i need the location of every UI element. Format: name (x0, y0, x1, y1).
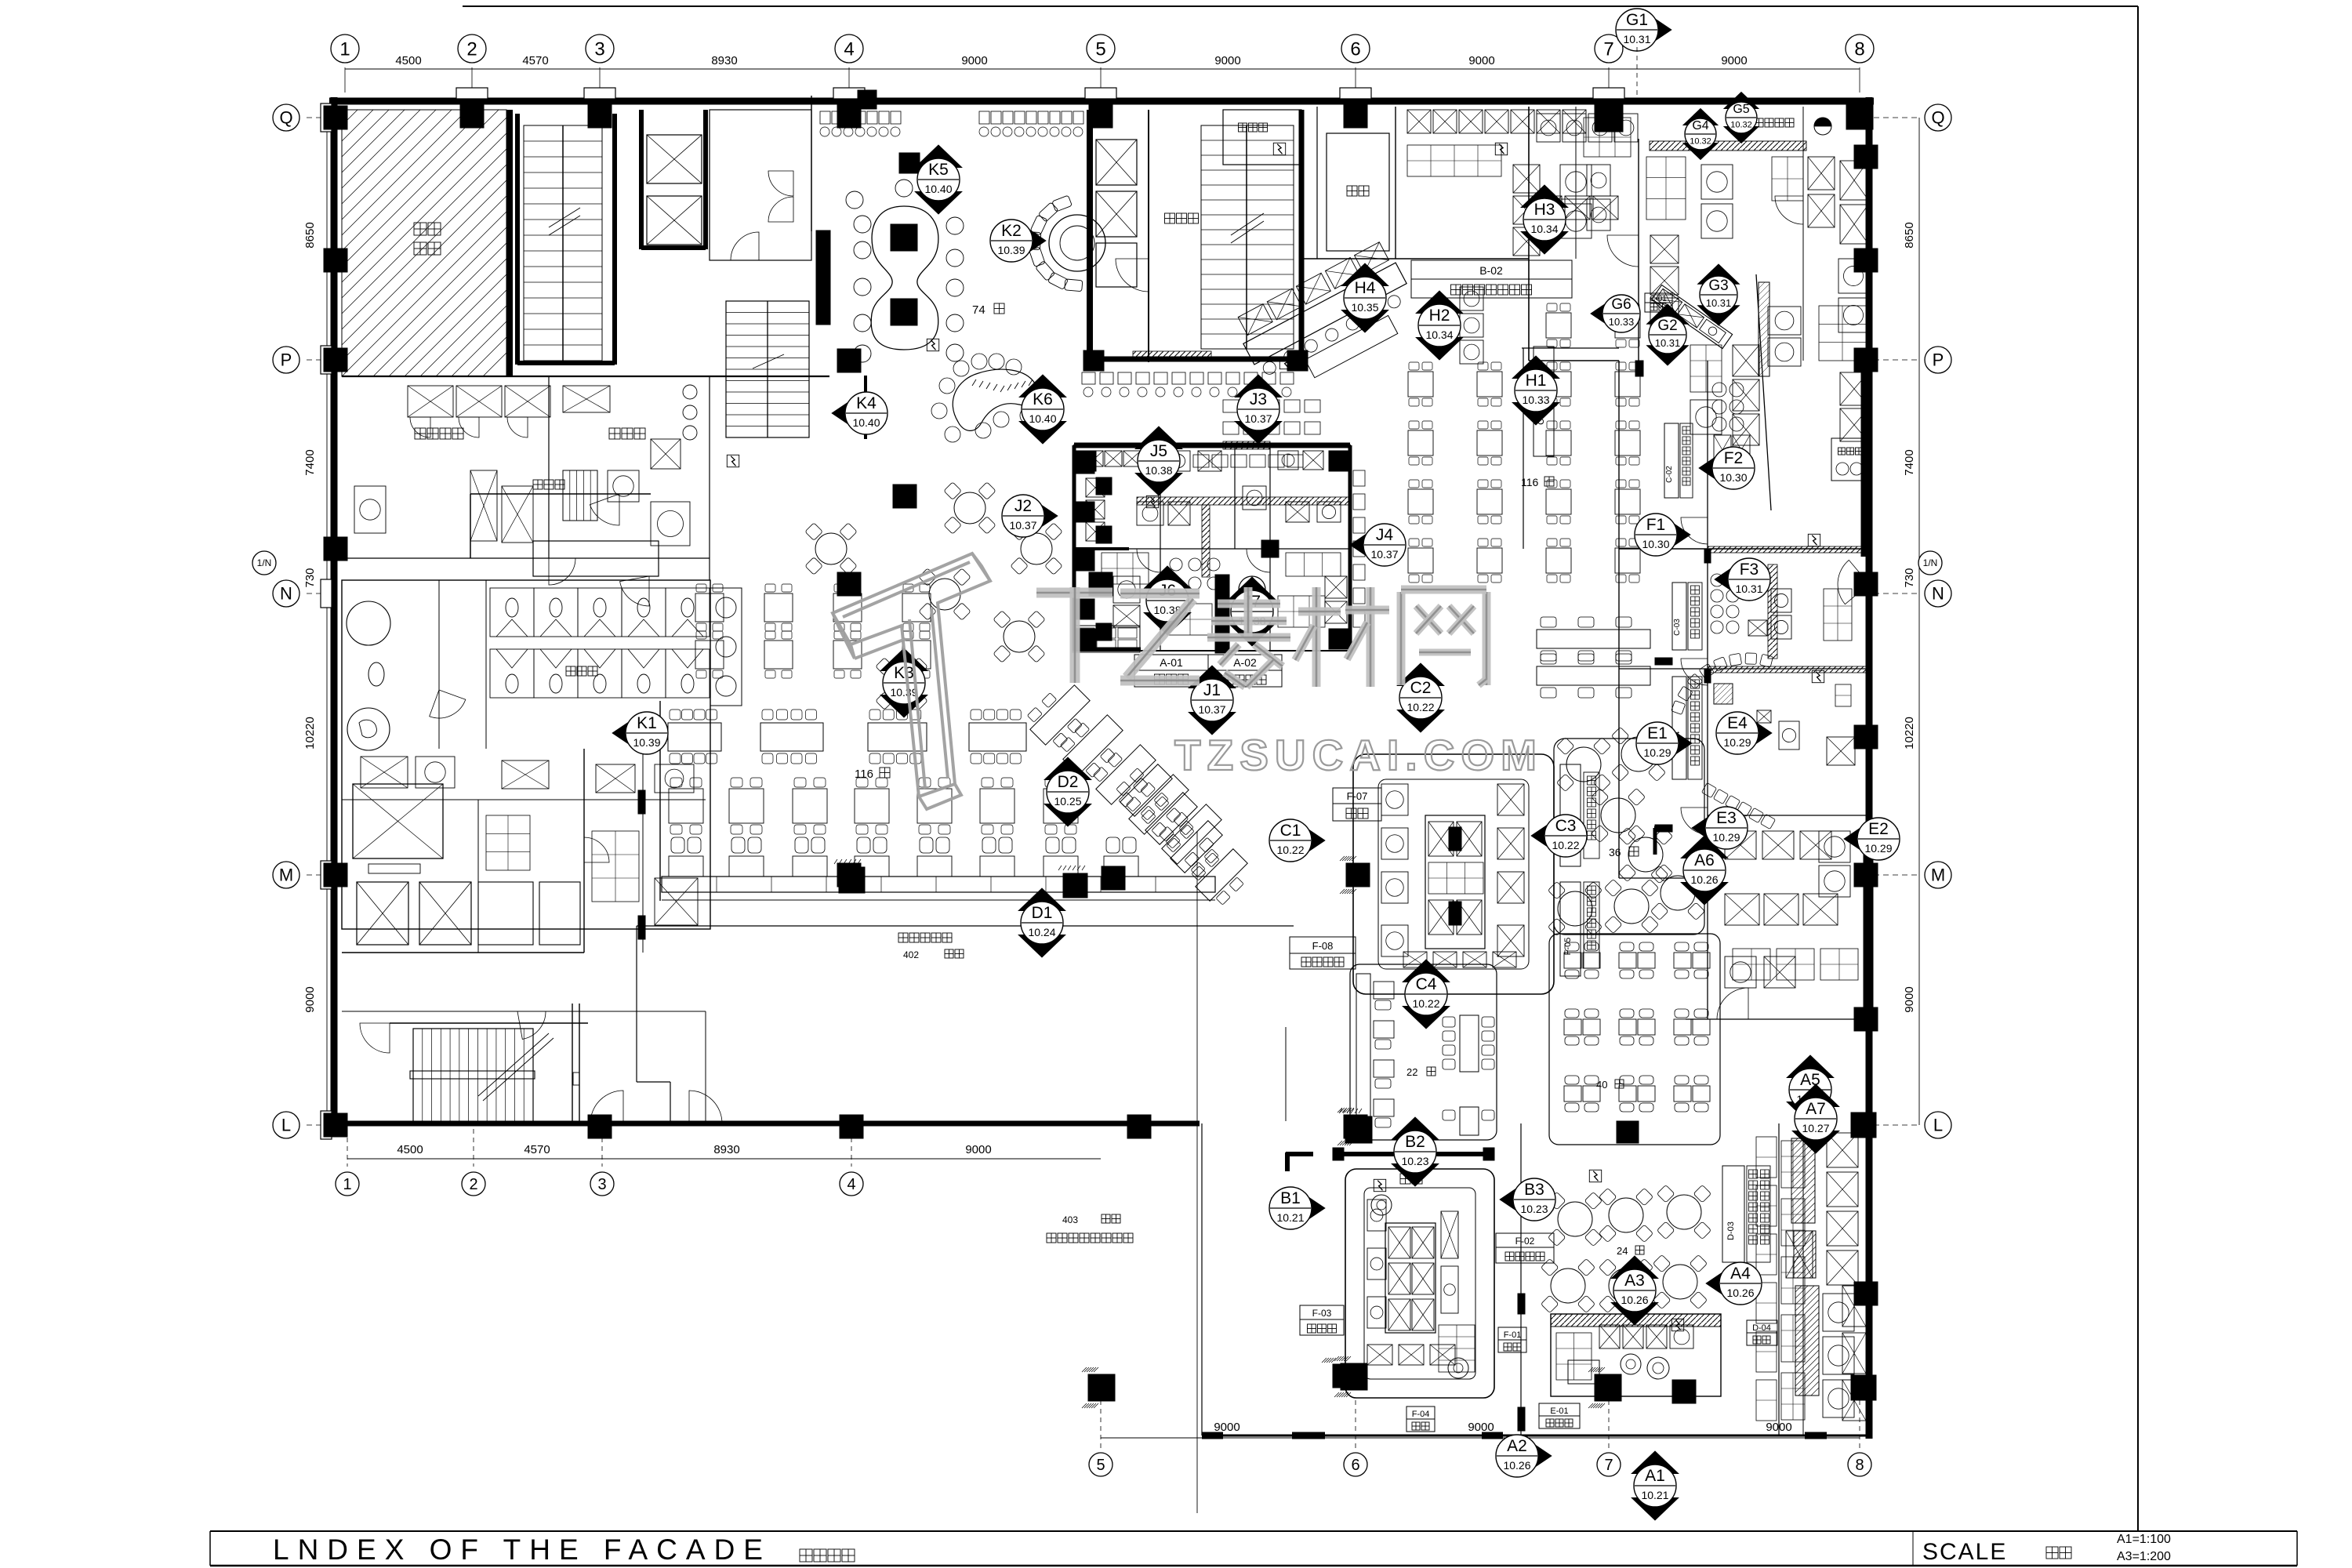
kitchen 公用厨房 (415, 428, 426, 439)
svg-text:10.22: 10.22 (1276, 844, 1304, 856)
svg-text:9000: 9000 (1468, 54, 1494, 67)
F-03 labels (1300, 1305, 1344, 1319)
column (1854, 1282, 1878, 1305)
column (1854, 725, 1878, 749)
S banana counter (953, 369, 1038, 430)
marker H4 (1341, 263, 1388, 286)
grid bubble 1 (331, 34, 359, 63)
hatched door sill TM (1133, 351, 1211, 361)
marker G1 (1643, 11, 1671, 49)
marker K1 (612, 714, 641, 752)
sheet frame top border (463, 5, 2138, 7)
svg-text:3: 3 (597, 1176, 606, 1193)
svg-text:L: L (281, 1116, 291, 1135)
svg-text:N: N (1932, 584, 1944, 604)
svg-text:5: 5 (1095, 38, 1105, 60)
black wall segment lobby (816, 230, 830, 325)
outer wall top (329, 98, 1874, 105)
marker J4 (1350, 526, 1378, 564)
grid bubble 8 (1846, 34, 1874, 63)
column (324, 537, 347, 561)
marker B1 (1297, 1189, 1325, 1227)
marker G3 (1697, 264, 1739, 284)
svg-text:1/N: 1/N (1923, 557, 1938, 568)
svg-text:E3: E3 (1716, 809, 1737, 827)
marker A4 (1706, 1265, 1734, 1302)
svg-text:9000: 9000 (961, 54, 987, 67)
right lower equipment strip (1778, 1123, 1780, 1436)
40-person room (1549, 934, 1720, 1145)
svg-text:10.33: 10.33 (1522, 394, 1549, 406)
marker G5 (1724, 92, 1759, 108)
grid bubble 2 (462, 1172, 485, 1196)
svg-text:10.29: 10.29 (1723, 736, 1751, 749)
svg-text:10.40: 10.40 (1029, 412, 1056, 425)
svg-text:C-03: C-03 (1673, 619, 1682, 636)
grid bubble Q (273, 104, 299, 131)
J kitchen left checker wall (1076, 453, 1094, 474)
svg-text:P: P (281, 350, 292, 370)
svg-text:N: N (280, 584, 292, 604)
A-01 A-02 labels (1134, 655, 1208, 670)
svg-text:Q: Q (1931, 108, 1944, 128)
grid bubble 7 (1595, 34, 1623, 63)
TM stair (1201, 125, 1294, 349)
column (893, 485, 916, 508)
svg-text:K2: K2 (1001, 222, 1022, 240)
column (1089, 572, 1112, 596)
svg-text:E1: E1 (1647, 724, 1668, 742)
marker F2 (1699, 449, 1727, 487)
outer wall left (331, 97, 338, 1127)
svg-text:10.37: 10.37 (1370, 548, 1398, 561)
svg-text:10.22: 10.22 (1412, 997, 1439, 1010)
hatched AC machine room (342, 110, 506, 376)
svg-text:10.29: 10.29 (1712, 831, 1740, 844)
column (840, 1115, 863, 1138)
svg-text:Q: Q (279, 108, 292, 128)
svg-text:10.23: 10.23 (1520, 1203, 1548, 1215)
lower wing bottom wall (1202, 1435, 1872, 1437)
svg-text:G2: G2 (1657, 318, 1677, 334)
svg-text:K6: K6 (1033, 390, 1053, 408)
flue room (1327, 133, 1389, 251)
watermark char su (1218, 600, 1280, 608)
svg-text:3: 3 (594, 38, 604, 60)
svg-text:10.26: 10.26 (1726, 1287, 1754, 1299)
wall below lobby K4 (864, 376, 867, 439)
power room TM top (1223, 110, 1301, 165)
J kitchen walls (1074, 445, 1350, 651)
column (1851, 1112, 1876, 1138)
svg-text:F2: F2 (1724, 449, 1744, 467)
svg-text:J1: J1 (1203, 681, 1221, 699)
svg-text:1: 1 (343, 1176, 351, 1193)
grid bubble 7 (1597, 1453, 1621, 1476)
dining NE walls (1523, 348, 1524, 549)
lightning symbols (731, 456, 735, 466)
column (324, 348, 347, 372)
svg-text:403: 403 (1062, 1214, 1078, 1225)
svg-text:9000: 9000 (1214, 54, 1240, 67)
svg-text:G1: G1 (1626, 11, 1648, 29)
svg-text:2: 2 (466, 38, 477, 60)
svg-text:D1: D1 (1032, 904, 1053, 922)
svg-text:A7: A7 (1806, 1100, 1826, 1118)
svg-text:10.26: 10.26 (1621, 1294, 1648, 1306)
grid bubble N (1925, 580, 1951, 607)
marker H2 (1416, 291, 1463, 314)
column hatched (1346, 863, 1370, 887)
E room below (1725, 831, 1756, 859)
top dimension line (345, 68, 1860, 70)
column (1261, 540, 1279, 557)
svg-text:J2: J2 (1014, 497, 1032, 515)
marker E2 (1844, 820, 1872, 858)
K1 tables (695, 593, 724, 622)
C-01 label (1645, 293, 1672, 303)
column (1854, 572, 1878, 596)
svg-text:4500: 4500 (395, 54, 421, 67)
leader G1 (1636, 47, 1638, 101)
svg-text:10.38: 10.38 (1145, 464, 1172, 477)
svg-text:H3: H3 (1534, 201, 1555, 219)
svg-text:7400: 7400 (1903, 449, 1916, 475)
toilets outer (342, 580, 710, 929)
watermark char T (1036, 588, 1112, 598)
column (1851, 1375, 1876, 1400)
strip doors (1681, 517, 1708, 544)
svg-text:F1: F1 (1646, 516, 1666, 534)
H2 room equipment (1460, 287, 1483, 310)
svg-text:10.37: 10.37 (1009, 519, 1036, 532)
column (324, 863, 347, 887)
marker A3 (1611, 1256, 1658, 1279)
left rooms partitions (584, 799, 706, 800)
svg-text:10.35: 10.35 (1351, 301, 1378, 314)
watermark char cai (1312, 587, 1321, 687)
svg-text:7400: 7400 (303, 449, 317, 475)
column (1854, 863, 1878, 887)
column (837, 572, 861, 596)
marker C4 (1403, 960, 1450, 982)
marker K6 (1019, 375, 1066, 397)
chairs right of J kitchen (1353, 470, 1365, 486)
grid bubble M (1925, 862, 1951, 888)
svg-text:10220: 10220 (1903, 717, 1916, 750)
svg-text:LNDEX OF THE FACADE: LNDEX OF THE FACADE (273, 1534, 771, 1566)
marker D1 (1018, 888, 1065, 911)
marker K3 (880, 648, 927, 671)
marker C1 (1297, 822, 1325, 859)
grid bubble M (273, 862, 299, 888)
svg-text:10.32: 10.32 (1690, 137, 1711, 147)
svg-text:F-01: F-01 (1504, 1330, 1522, 1340)
outer wall bottom grid L (331, 1121, 1200, 1127)
J5 seat row (1193, 455, 1209, 467)
grid bubble 5 (1087, 34, 1115, 63)
column hatched (1088, 1374, 1115, 1401)
column (1672, 1380, 1696, 1403)
svg-text:1/N: 1/N (257, 557, 272, 568)
marker J3 (1235, 375, 1282, 397)
grid bubble N (273, 580, 299, 607)
svg-text:C3: C3 (1555, 817, 1577, 835)
36 area corner wall (1654, 826, 1672, 830)
TL stair walls (515, 114, 520, 365)
stairwell TL (524, 125, 602, 361)
round bar (1049, 215, 1105, 271)
svg-text:E4: E4 (1727, 714, 1748, 732)
grid bubble Q (1925, 104, 1951, 131)
title block lines (210, 1530, 2297, 1532)
grid bubble 4 (840, 1172, 863, 1196)
sheet frame right border (2137, 6, 2139, 1531)
svg-text:G6: G6 (1611, 296, 1631, 313)
svg-text:6: 6 (1350, 38, 1360, 60)
svg-text:10.39: 10.39 (890, 686, 917, 699)
G2 room equip (1690, 345, 1722, 392)
right dimension line (1918, 118, 1920, 1125)
svg-text:4: 4 (844, 38, 854, 60)
D1 boundary (637, 925, 1294, 927)
marker G2 (1646, 304, 1688, 324)
column (324, 249, 347, 272)
column (1595, 103, 1623, 132)
svg-text:4500: 4500 (397, 1143, 423, 1156)
D-04 label (1747, 1320, 1777, 1333)
J kitchen hatched walls (1137, 497, 1350, 505)
marker G4 (1683, 108, 1718, 125)
marker G6 (1591, 296, 1616, 330)
marker B2 (1392, 1117, 1439, 1140)
svg-text:C-02: C-02 (1665, 466, 1674, 483)
outer wall right (1866, 97, 1873, 1439)
diagonal tables row1 (1022, 677, 1098, 753)
marker J5 (1135, 426, 1182, 449)
bottom-left dimension line (347, 1158, 1101, 1160)
column (588, 104, 612, 128)
svg-text:A3: A3 (1624, 1272, 1645, 1290)
grid bubble L (273, 1112, 299, 1138)
svg-text:F-08: F-08 (1312, 940, 1334, 952)
svg-text:10.30: 10.30 (1642, 538, 1669, 550)
column (1344, 104, 1367, 128)
svg-text:10.37: 10.37 (1244, 412, 1272, 425)
marker K5 (915, 145, 962, 168)
E-01 label (1539, 1403, 1580, 1416)
svg-text:8930: 8930 (713, 1143, 739, 1156)
svg-text:B3: B3 (1524, 1181, 1544, 1199)
svg-text:J4: J4 (1376, 526, 1394, 544)
band walls (1301, 258, 1529, 260)
svg-text:D-03: D-03 (1726, 1221, 1736, 1240)
svg-text:G5: G5 (1733, 103, 1749, 116)
svg-text:K5: K5 (928, 161, 949, 179)
washbasins (710, 588, 742, 706)
22-person room (1350, 964, 1497, 1140)
column (1854, 348, 1878, 372)
marker F1 (1662, 516, 1690, 554)
svg-text:J5: J5 (1150, 442, 1167, 460)
grid bubble 2 (458, 34, 486, 63)
column (837, 863, 861, 887)
chair row below TM core (1082, 372, 1095, 384)
svg-text:M: M (1931, 866, 1945, 885)
svg-text:74: 74 (972, 303, 985, 317)
grid bubble 4 (835, 34, 863, 63)
marker H1 (1512, 356, 1559, 379)
svg-text:10.39: 10.39 (997, 244, 1025, 256)
svg-text:402: 402 (903, 949, 919, 960)
svg-text:7: 7 (1604, 1457, 1613, 1474)
marker A5 (1787, 1055, 1834, 1078)
marker F3 (1715, 561, 1743, 598)
svg-text:10.25: 10.25 (1054, 795, 1081, 808)
C-03 vertical label (1672, 583, 1686, 650)
A3 round tables (1558, 1202, 1592, 1236)
column (1102, 866, 1125, 890)
svg-text:8650: 8650 (1903, 222, 1916, 248)
svg-text:10.21: 10.21 (1641, 1489, 1668, 1501)
36 area tables (1566, 747, 1601, 782)
svg-text:F-02: F-02 (1515, 1236, 1535, 1247)
svg-text:10.24: 10.24 (1028, 926, 1055, 938)
right dining tables (1546, 313, 1571, 338)
svg-text:10.31: 10.31 (1735, 583, 1762, 595)
svg-text:TZSUCAI.COM: TZSUCAI.COM (1174, 731, 1543, 779)
svg-text:10.33: 10.33 (1609, 316, 1635, 328)
marker J2 (1029, 497, 1058, 535)
B3 wall (1520, 1123, 1522, 1436)
svg-text:4570: 4570 (524, 1143, 550, 1156)
F-07 island (1353, 754, 1554, 994)
marker J1 (1189, 666, 1236, 688)
marker E1 (1664, 724, 1692, 762)
A5/A6 rooms (1725, 894, 1759, 925)
marker B3 (1500, 1181, 1528, 1218)
svg-text:K4: K4 (856, 394, 877, 412)
grid bubble 8 (1848, 1453, 1871, 1476)
svg-text:9000: 9000 (1214, 1421, 1240, 1434)
svg-text:A4: A4 (1730, 1265, 1751, 1283)
新风机房 room (1831, 438, 1869, 481)
G4/G5 hatched wall (1650, 141, 1806, 151)
svg-text:10.26: 10.26 (1690, 873, 1718, 886)
svg-text:10.29: 10.29 (1864, 842, 1892, 855)
F2/F1 room equipment (1712, 383, 1726, 397)
svg-text:9000: 9000 (303, 986, 317, 1012)
grid bubble P (273, 347, 299, 373)
column (1329, 451, 1349, 471)
column (899, 153, 920, 173)
marker D2 (1044, 757, 1091, 780)
svg-text:4: 4 (847, 1176, 855, 1193)
vestibule walls (470, 493, 651, 495)
E-01 kitchen (1551, 1314, 1721, 1396)
svg-text:H1: H1 (1526, 372, 1547, 390)
grid bubble 5 (1089, 1453, 1112, 1476)
svg-text:10.31: 10.31 (1623, 33, 1650, 45)
column (1846, 103, 1873, 129)
marker E3 (1692, 809, 1720, 847)
svg-text:A-01: A-01 (1160, 656, 1183, 669)
svg-text:10.22: 10.22 (1406, 701, 1434, 713)
grid bubble 1/N (252, 551, 276, 575)
E4 room equipment (1714, 684, 1733, 704)
gas meter room (1755, 118, 1763, 127)
svg-text:G3: G3 (1708, 278, 1728, 294)
svg-text:A-02: A-02 (1233, 656, 1257, 669)
column (1854, 249, 1878, 272)
svg-text:730: 730 (1903, 568, 1916, 587)
right wall rooms top (1840, 161, 1868, 200)
marker A1 (1632, 1451, 1679, 1474)
F-06 F-05 vertical labels (1560, 764, 1581, 866)
svg-text:C-01: C-01 (1650, 295, 1667, 303)
dining row2 square tables (669, 789, 703, 823)
svg-text:10.31: 10.31 (1706, 297, 1732, 309)
F3 room equipment (1711, 574, 1723, 586)
chairs along top wall (820, 111, 830, 124)
svg-text:10.27: 10.27 (1802, 1122, 1829, 1134)
lower right strip extra (1781, 1141, 1805, 1188)
svg-text:C2: C2 (1410, 679, 1432, 697)
column (837, 349, 861, 372)
column hatched (1341, 1363, 1367, 1390)
marker J6 (1144, 566, 1191, 589)
svg-text:SCALE: SCALE (1922, 1539, 2007, 1565)
svg-text:10.32: 10.32 (1730, 121, 1752, 130)
F-07 label (1333, 788, 1381, 804)
svg-text:8: 8 (1855, 1457, 1864, 1474)
J kitchen equipment (1086, 451, 1103, 466)
grand stair B (726, 301, 809, 437)
marker K2 (1018, 222, 1046, 260)
banquette curve (1671, 701, 1686, 715)
svg-text:F-04: F-04 (1412, 1410, 1430, 1419)
grid bubble 6 (1341, 34, 1370, 63)
grid bubble 6 (1344, 1453, 1367, 1476)
extra top-right equipment (1575, 107, 1577, 259)
svg-text:10.34: 10.34 (1425, 328, 1453, 341)
lower wing left boundary (1201, 1123, 1203, 1436)
watermark char wang (1397, 592, 1406, 685)
svg-text:4570: 4570 (522, 54, 548, 67)
diagonal noodle bar (1231, 240, 1425, 400)
svg-text:A3=1:200: A3=1:200 (2117, 1550, 2171, 1563)
svg-text:L: L (1933, 1116, 1943, 1135)
column (1089, 104, 1112, 128)
svg-text:B1: B1 (1280, 1189, 1301, 1207)
grid bubble 1/N (1918, 551, 1942, 575)
stall row2 (490, 649, 534, 698)
J3 seat rows (1223, 400, 1239, 412)
svg-text:5: 5 (1096, 1457, 1105, 1474)
svg-text:9000: 9000 (1903, 986, 1916, 1012)
J kitchen extra boxes (1170, 558, 1182, 571)
svg-text:10.40: 10.40 (924, 183, 952, 195)
svg-text:M: M (279, 866, 293, 885)
svg-text:10.37: 10.37 (1198, 703, 1225, 716)
marker H3 (1521, 185, 1568, 208)
column (1329, 629, 1349, 649)
column (588, 1115, 612, 1138)
column (1083, 350, 1104, 371)
rooms below TL core (342, 376, 829, 377)
column (1854, 1007, 1878, 1031)
dining row1 long tables (668, 723, 721, 751)
